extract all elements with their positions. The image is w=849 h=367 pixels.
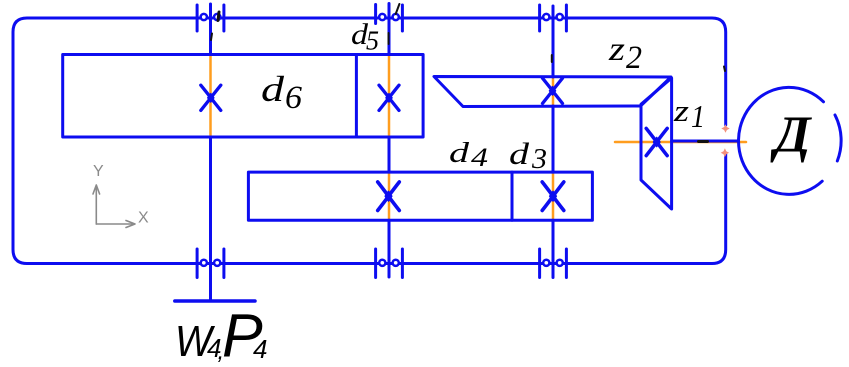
gearbox housing frame — [13, 18, 726, 264]
bevel gear z2 — [434, 77, 671, 107]
svg-text:6: 6 — [285, 80, 303, 116]
bearing shaft II bottom — [376, 249, 403, 278]
centerline shaft II upper (orange) — [388, 55, 391, 138]
svg-text:d: d — [509, 136, 530, 171]
bearing shaft III bottom — [540, 249, 567, 278]
gear cross X d6 — [201, 85, 221, 110]
svg-text:4: 4 — [253, 334, 267, 364]
bearing shaft III top — [540, 5, 567, 31]
gear cross X z1 — [646, 128, 667, 155]
gear cross X d5 — [379, 85, 399, 110]
bearing shaft II top — [376, 5, 403, 32]
svg-text:d: d — [449, 137, 470, 169]
svg-text:Д: Д — [770, 107, 812, 164]
svg-text:2: 2 — [626, 40, 642, 76]
gear block d4/d3 rectangle — [248, 172, 592, 220]
gear block d6/d5 rectangle — [63, 55, 423, 138]
centerline shaft II lower (orange) — [388, 172, 391, 221]
svg-text:3: 3 — [531, 144, 547, 175]
stray ink marks — [211, 4, 725, 142]
centerline shaft III in z2 (orange) — [552, 77, 555, 110]
divider between d4 and d3 — [511, 172, 514, 220]
motor circle right arc segment — [835, 115, 841, 161]
svg-text:z: z — [673, 93, 689, 128]
centerline motor shaft (orange) — [615, 141, 746, 144]
gear cross X d3 — [542, 182, 564, 210]
motor circle — [739, 87, 824, 194]
svg-text:z: z — [608, 31, 625, 68]
shaft I — [209, 4, 212, 301]
bearing shaft I bottom — [197, 249, 224, 278]
gear cross X d4 — [378, 182, 400, 210]
output coupling bar W4 P4 — [175, 299, 255, 303]
pink mark upper at frame crossing — [721, 124, 729, 133]
bearing shaft I top — [197, 5, 224, 31]
gear cross X z2 — [543, 78, 563, 103]
bevel gear z1 — [641, 78, 672, 209]
svg-text:4: 4 — [471, 143, 488, 172]
output label W4,P4 — [175, 302, 267, 367]
shaft II — [388, 4, 391, 278]
centerline shaft I (orange) — [209, 55, 212, 138]
divider between d6 and d5 — [355, 55, 358, 138]
svg-text:d: d — [261, 69, 285, 109]
centerline shaft III lower (orange) — [552, 172, 555, 221]
svg-text:1: 1 — [691, 98, 705, 134]
shaft III — [552, 6, 555, 278]
axes marker — [93, 185, 135, 228]
motor shaft — [672, 140, 738, 143]
pink mark lower at frame crossing — [721, 148, 729, 157]
svg-text:5: 5 — [366, 26, 379, 56]
svg-text:Y: Y — [93, 163, 104, 180]
svg-text:X: X — [138, 210, 149, 227]
